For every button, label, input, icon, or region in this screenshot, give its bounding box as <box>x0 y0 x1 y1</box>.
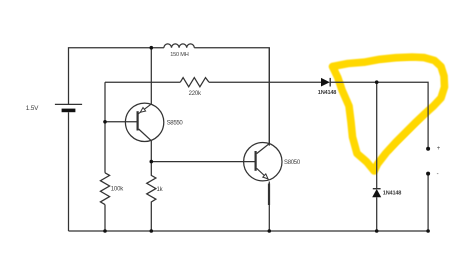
node: bottom rail 1k junction <box>150 229 154 233</box>
diode D2 1N4148 (vertical) <box>372 189 381 198</box>
node: S8550 base junction <box>103 120 107 124</box>
node: diode line / D2 branch junction <box>375 80 379 84</box>
transistor Q1 S8550 (PNP) <box>125 103 163 141</box>
wire: S8550 base wire <box>105 121 137 123</box>
svg-text:1N4148: 1N4148 <box>383 190 401 196</box>
node: top rail / S8550 emitter junction <box>150 46 154 50</box>
wire: 220k line left vertical (to base node) <box>104 82 106 173</box>
wire: S8550 collector down to node <box>150 141 152 162</box>
wire: S8550 emitter to top rail <box>150 48 152 104</box>
node: bottom rail D2 junction <box>375 229 379 233</box>
node: - output terminal <box>426 172 430 176</box>
wire: 220k to diode D1 <box>209 81 321 83</box>
svg-text:-: - <box>437 171 439 177</box>
battery B1 1.5V plates <box>55 103 82 105</box>
svg-text:220k: 220k <box>189 91 202 97</box>
svg-text:1.5V: 1.5V <box>26 105 39 112</box>
wire: S8050 emitter to bottom rail <box>268 182 270 232</box>
svg-text:+: + <box>437 146 441 152</box>
resistor 100k <box>100 173 109 205</box>
wire: 100k to bottom rail <box>104 205 106 231</box>
svg-text:150 MH: 150 MH <box>170 52 189 58</box>
svg-text:100k: 100k <box>111 187 124 193</box>
svg-text:1N4148: 1N4148 <box>318 90 336 96</box>
resistor 220k <box>180 78 209 87</box>
inductor L1 150 MH <box>164 44 194 48</box>
resistor 1k <box>147 162 156 231</box>
node: bottom rail S8050 emitter junction <box>268 229 272 233</box>
wire: diode D2 branch vertical <box>376 82 378 231</box>
diode D1 1N4148 (horizontal) <box>321 78 330 87</box>
wire: 220k line left segment <box>105 81 180 83</box>
wire: - terminal to bottom rail <box>427 174 429 231</box>
highlight annotation (yellow marker loop) <box>333 57 445 171</box>
svg-text:S8050: S8050 <box>284 160 301 166</box>
node: + output terminal <box>426 147 430 151</box>
wire: top rail right segment to S8050 collector <box>194 48 269 146</box>
wire: top rail left segment (battery + to inductor) <box>69 48 164 105</box>
svg-text:S8550: S8550 <box>167 120 184 126</box>
node: S8550 collector / 1k / S8050 base junction <box>150 160 154 164</box>
wire: battery - to bottom rail <box>68 112 70 231</box>
transistor Q2 S8050 (NPN) <box>244 48 282 181</box>
wire: node to S8050 base <box>151 161 255 163</box>
node: bottom rail right end junction <box>426 229 430 233</box>
wire: diode D1 to + terminal corner <box>330 82 428 149</box>
node: bottom rail 100k junction <box>103 229 107 233</box>
wire: bottom rail <box>69 230 429 232</box>
